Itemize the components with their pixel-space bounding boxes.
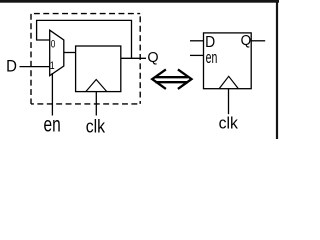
svg-text:D: D [6,58,17,76]
dashed box right edge [139,14,141,104]
mux U1 [50,30,64,75]
label D input [6,58,17,76]
wire mux output to flip-flop D [64,52,76,54]
wire Q output stub [251,40,265,42]
flip-flop box left [76,46,121,92]
svg-text:1: 1 [50,60,55,72]
equivalence double arrow [152,69,191,89]
mux pin label 0 [51,38,56,50]
clock triangle left flip-flop [86,80,107,92]
flip-flop box right [204,33,252,89]
wire clk right [228,89,230,115]
pin label D right [205,33,215,51]
mux pin label 1 [50,60,55,72]
label en [44,112,61,136]
svg-text:en: en [44,112,61,136]
wire clk to flip-flop [95,92,97,116]
top border line [0,0,279,3]
dashed box top edge [31,13,140,15]
svg-text:0: 0 [51,38,56,50]
svg-text:Q: Q [241,32,252,49]
label clk right [219,114,239,133]
label clk left [86,115,106,137]
right border line [276,0,278,139]
dashed box left edge [30,14,32,104]
clock triangle right flip-flop [219,76,238,88]
feedback wire Q to mux input 0 [37,20,132,58]
wire en to mux select [51,73,53,116]
dashed box bottom edge [31,103,140,105]
pin label en right [206,47,218,66]
wire en input stub [190,54,204,56]
wire Q output [121,57,146,59]
pin label Q right [241,32,252,49]
wire D input stub [190,40,204,42]
svg-text:Q: Q [147,50,158,66]
svg-text:clk: clk [86,115,106,137]
svg-text:clk: clk [219,114,239,133]
wire D to mux input 1 [20,66,50,68]
label Q output [147,50,158,66]
svg-text:en: en [206,47,218,66]
